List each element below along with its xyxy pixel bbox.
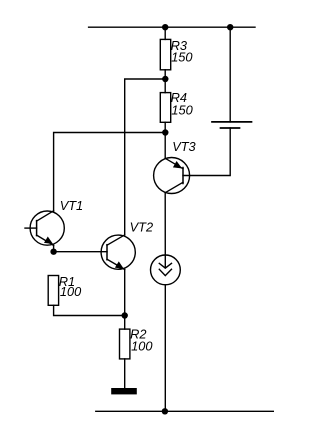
wire node to VT3 emitter [164,133,166,159]
wire top rail to R3 [164,27,166,39]
svg-text:VT1: VT1 [60,198,83,213]
svg-text:VT2: VT2 [130,220,153,235]
wire VT3 collector to current source [164,193,166,268]
wire R3 to node [164,70,166,93]
svg-text:100: 100 [60,284,82,299]
current source G1 [151,255,181,285]
wire VT1 emitter to node [53,245,55,251]
node junction R1/R2 [122,312,128,318]
wire node to VT2 base [54,251,107,253]
resistor R2 [120,329,130,359]
wire R4 to node [164,122,166,132]
node junction top rail battery [227,24,233,30]
node junction R3/R4 [162,76,168,82]
resistor R1 [48,276,58,306]
transistor VT3 [154,158,190,194]
wire R2 top [124,316,126,330]
node junction VT1 emitter [50,249,56,255]
wire node to VT1 collector branch [54,133,166,211]
svg-text:150: 150 [171,49,193,64]
resistor R4 [160,93,170,123]
wire current source to bottom rail [164,285,166,412]
node junction R4/VT3 [162,129,168,135]
svg-text:VT3: VT3 [172,139,195,154]
transistor VT2 [101,235,135,270]
wire R1 to VT2 emitter column [54,305,125,315]
resistor R3 [160,39,170,69]
wire bottom rail [96,410,273,412]
transistor VT1 [25,211,64,246]
wire top rail to battery [229,27,231,122]
ground [111,388,137,394]
wire VT2 emitter down [124,270,126,316]
battery GB1 [212,122,252,128]
node junction bottom rail [162,408,168,414]
svg-text:100: 100 [131,339,153,354]
wire top rail [89,26,255,28]
svg-text:150: 150 [171,102,193,117]
wire node to VT2 collector branch [125,79,166,235]
wire VT3 base to battery [183,128,230,176]
wire R2 to ground [124,359,126,388]
node junction top rail R3 [162,24,168,30]
